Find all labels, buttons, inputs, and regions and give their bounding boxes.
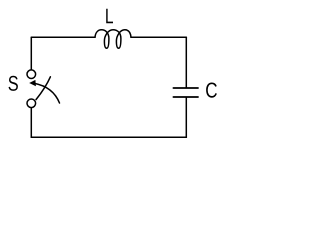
wire: right vertical upper (to capacitor) [185,37,187,87]
inductor L coil [95,30,131,49]
switch motion arrowhead [29,80,36,86]
wire: right vertical lower (capacitor to bottom) [185,98,187,137]
wire: top-right horizontal segment [131,36,186,38]
wire: left vertical lower (bottom to switch) [30,108,32,137]
wire: top-left horizontal segment [31,36,95,38]
capacitor C bottom plate [173,96,198,98]
switch S upper contact circle [27,70,36,79]
switch motion arc [35,83,60,103]
wire: left vertical upper (switch to top) [30,37,32,69]
label C [206,83,217,98]
switch S blade [36,77,50,100]
capacitor C top plate [173,87,198,89]
label S [9,76,18,91]
label L [106,9,113,24]
wire: bottom horizontal [31,136,186,138]
switch S lower contact circle [27,99,36,108]
